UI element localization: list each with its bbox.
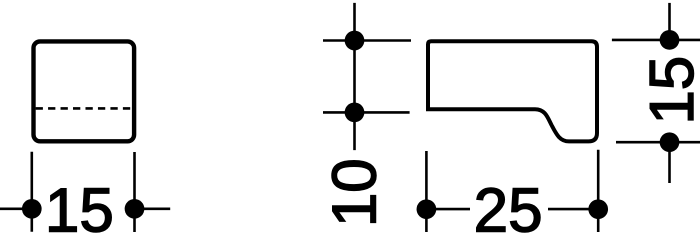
extension line bottom (15 side dim) bbox=[616, 141, 700, 144]
extension line left (25 dim) bbox=[425, 151, 428, 232]
hidden edge dashed line bbox=[36, 107, 131, 110]
svg-text:10: 10 bbox=[320, 158, 389, 227]
dimension dot bottom (15 side dim) bbox=[660, 132, 680, 152]
dimension line vertical lower segment (15 side dim) bbox=[668, 142, 671, 183]
extension line left (15 dim) bbox=[30, 152, 33, 232]
dimension dot bottom (10 dim) bbox=[345, 103, 365, 123]
svg-text:15: 15 bbox=[45, 176, 114, 236]
extension line right (25 dim) bbox=[597, 150, 600, 232]
svg-text:25: 25 bbox=[474, 176, 543, 236]
dimension line right segment (25 dim) bbox=[548, 208, 598, 211]
dimension line vertical (10 dim) bbox=[353, 3, 356, 150]
extension line bottom (10 dim) bbox=[323, 111, 410, 114]
dimension line left segment (25 dim) bbox=[426, 208, 470, 211]
dimension line left segment (15 dim) bbox=[0, 208, 32, 211]
extension line top (15 side dim) bbox=[612, 39, 700, 42]
extension line right (15 dim) bbox=[133, 152, 136, 232]
dimension dot top (15 side dim) bbox=[660, 30, 680, 50]
dimension dot right (15 dim) bbox=[125, 199, 145, 219]
extension line top (10 dim) bbox=[323, 39, 411, 42]
dimension line vertical upper segment (15 side dim) bbox=[668, 3, 671, 40]
svg-text:15: 15 bbox=[638, 56, 700, 125]
dimension dot right (25 dim) bbox=[588, 199, 608, 219]
dimension dot top (10 dim) bbox=[345, 31, 365, 51]
dimension dot left (25 dim) bbox=[417, 199, 437, 219]
dimension dot left (15 dim) bbox=[22, 199, 42, 219]
side view: hook profile outline bbox=[428, 41, 597, 141]
dimension line right segment (15 dim) bbox=[135, 208, 171, 211]
front view: rounded square outline bbox=[34, 41, 135, 141]
